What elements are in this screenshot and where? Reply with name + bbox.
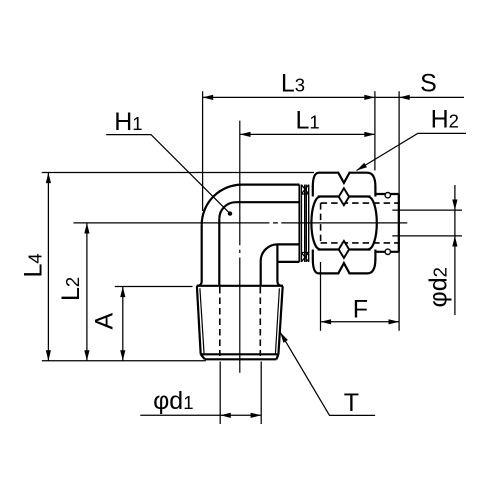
tube bead circle top xyxy=(385,193,390,198)
tapered male thread T xyxy=(197,286,284,360)
svg-text:F: F xyxy=(353,295,368,323)
body right face xyxy=(298,185,300,262)
label H2 with leader arrow xyxy=(357,133,467,170)
svg-text:φd1: φd1 xyxy=(153,387,193,415)
sleeve between body and nut xyxy=(301,185,308,262)
dimension L2 xyxy=(86,223,88,361)
tube stub xyxy=(376,194,399,252)
dimension A xyxy=(115,287,193,361)
label T with leader arrow xyxy=(280,332,375,415)
dimension L1 xyxy=(240,133,375,135)
union nut H2 xyxy=(311,173,376,274)
elbow body outline xyxy=(197,185,300,286)
tube bead circle bottom xyxy=(385,249,390,254)
dimension L4 xyxy=(42,173,314,361)
svg-text:L4: L4 xyxy=(20,253,48,277)
svg-text:φd2: φd2 xyxy=(425,267,453,307)
svg-text:L1: L1 xyxy=(295,107,319,135)
hidden bore lines through nut (dashed) xyxy=(321,203,399,243)
svg-text:H2: H2 xyxy=(431,105,459,133)
nut facet diamond bottom xyxy=(339,241,349,258)
label H1 with leader dot xyxy=(106,135,230,214)
thread root thin lines xyxy=(200,288,280,354)
dimension phi-d2 xyxy=(392,185,462,315)
vertical centerline xyxy=(239,121,241,373)
dimension S xyxy=(399,95,410,100)
svg-text:L3: L3 xyxy=(281,70,305,98)
svg-text:T: T xyxy=(344,389,359,417)
dimension phi-d1 xyxy=(140,362,261,425)
dimension F xyxy=(321,262,400,331)
hidden thread lines (dashed) xyxy=(220,287,260,356)
svg-text:L2: L2 xyxy=(57,277,85,301)
nut facet diamond top xyxy=(339,188,349,205)
horizontal centerline xyxy=(73,222,407,224)
svg-text:H1: H1 xyxy=(114,108,142,136)
dimension L3 xyxy=(203,91,464,211)
svg-text:A: A xyxy=(90,312,118,329)
baseline extension xyxy=(42,360,206,362)
svg-text:S: S xyxy=(420,70,437,98)
